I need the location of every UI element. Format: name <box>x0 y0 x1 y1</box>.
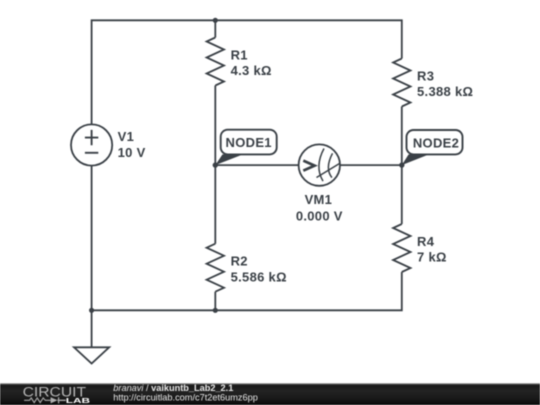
ground <box>74 347 109 363</box>
wire R3 to node2 <box>401 107 403 166</box>
svg-text:NODE1: NODE1 <box>226 135 272 150</box>
svg-text:NODE2: NODE2 <box>413 136 459 151</box>
svg-text:V1: V1 <box>118 129 135 144</box>
svg-text:VM1: VM1 <box>305 192 333 207</box>
CircuitLab logo diode <box>51 397 66 403</box>
label V1 value <box>118 129 146 160</box>
wire V1 bottom lead <box>91 166 93 311</box>
junction dot node1 <box>213 162 218 167</box>
svg-text:10 V: 10 V <box>118 145 146 160</box>
wire ground stem <box>91 310 93 347</box>
wire middle column top (to R1) <box>214 20 216 37</box>
wire bottom horizontal with corner bend to R4 <box>92 272 402 310</box>
label R2 value <box>231 254 287 285</box>
voltage source V1 <box>71 124 112 165</box>
node NODE1 flag <box>215 130 276 165</box>
svg-text:0.000 V: 0.000 V <box>296 209 343 224</box>
resistor R4 <box>393 224 410 272</box>
svg-text:R2: R2 <box>231 254 248 269</box>
resistor R2 <box>207 244 224 292</box>
svg-text:5.388 kΩ: 5.388 kΩ <box>417 84 473 99</box>
wire R1 to node1 <box>214 86 216 166</box>
svg-text:4.3 kΩ: 4.3 kΩ <box>231 63 272 78</box>
resistor R3 <box>393 59 410 107</box>
wire node1 to R2 <box>214 165 216 244</box>
CircuitLab logo resistor zigzag <box>24 398 50 403</box>
footer bar <box>0 383 540 405</box>
wire top horizontal with corner bends <box>92 20 402 124</box>
junction dot node2 <box>399 162 404 167</box>
wire node1 to voltmeter <box>215 164 298 166</box>
svg-text:R1: R1 <box>231 47 248 62</box>
label VM1 value <box>296 192 343 224</box>
svg-text:7 kΩ: 7 kΩ <box>417 250 447 265</box>
svg-text:R4: R4 <box>417 234 435 249</box>
label R4 value <box>417 234 447 265</box>
voltmeter VM1 <box>299 144 340 185</box>
svg-text:http://circuitlab.com/c7t2et6u: http://circuitlab.com/c7t2et6umz6pp <box>113 392 258 402</box>
node NODE2 flag <box>402 130 463 165</box>
svg-text:5.586 kΩ: 5.586 kΩ <box>231 269 287 284</box>
resistor R1 <box>207 38 224 86</box>
wire R2 to bottom <box>214 292 216 311</box>
label R1 value <box>231 47 272 78</box>
junction dot bottom middle <box>213 308 218 313</box>
wire node2 to R4 <box>401 165 403 224</box>
svg-text:LAB: LAB <box>66 396 91 405</box>
label R3 value <box>417 68 473 99</box>
svg-text:R3: R3 <box>417 68 434 83</box>
wire voltmeter to node2 <box>340 164 402 166</box>
junction dot top <box>213 18 218 23</box>
junction dot ground <box>89 308 94 313</box>
